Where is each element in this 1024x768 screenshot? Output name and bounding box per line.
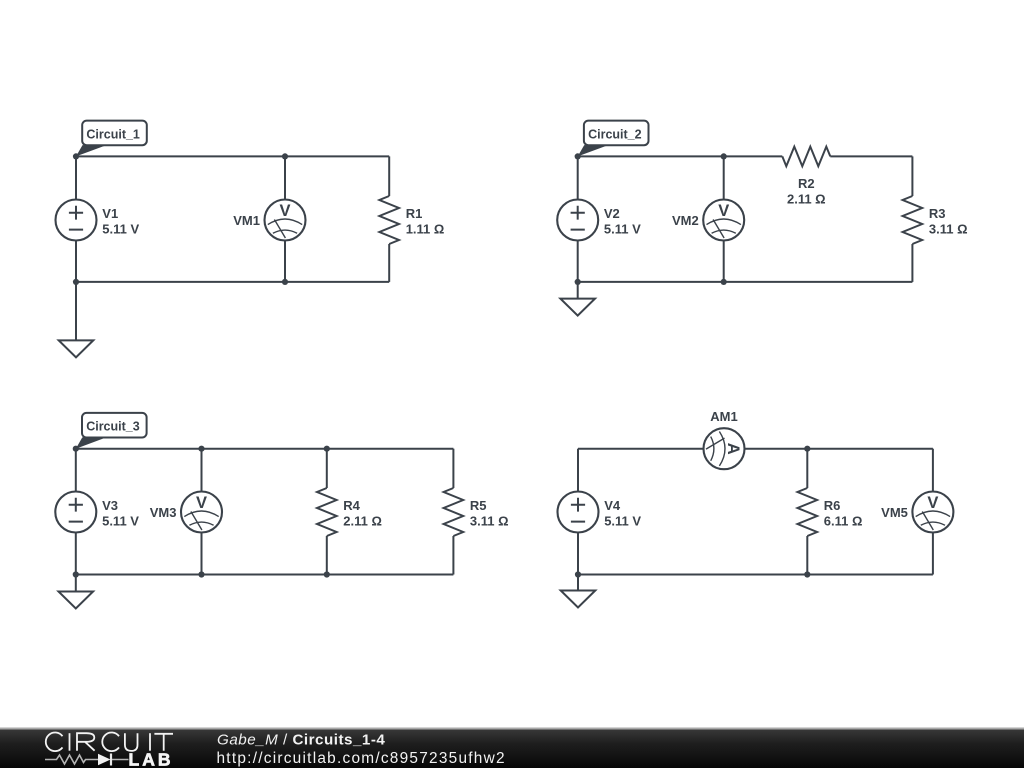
CircuitLab logo "CIRCUIT": [46, 733, 173, 752]
footer bar background: [0, 728, 1024, 768]
wire (C1 top rail): [76, 155, 389, 157]
svg-text:6.11 Ω: 6.11 Ω: [824, 514, 863, 529]
junction VM3 bottom: [198, 571, 204, 577]
svg-text:R6: R6: [824, 498, 841, 513]
wire (R5 bottom lead): [452, 536, 454, 575]
svg-text:2.11 Ω: 2.11 Ω: [343, 514, 382, 529]
wire (C2 top rail left): [578, 155, 783, 157]
wire (R3 top lead): [911, 156, 913, 196]
voltage source V1: [56, 200, 97, 241]
svg-text:R5: R5: [470, 498, 487, 513]
svg-text:LAB: LAB: [129, 750, 174, 768]
junction VM1 bottom: [282, 279, 288, 285]
voltmeter VM2: [703, 200, 744, 241]
svg-text:R3: R3: [929, 206, 946, 221]
wire (VM2 top lead): [723, 156, 725, 199]
svg-text:Circuit_2: Circuit_2: [588, 127, 642, 141]
wire (C3 top rail): [76, 448, 454, 450]
wire (R4 top lead): [326, 449, 328, 488]
junction R6 bottom: [804, 571, 810, 577]
resistor R1: [379, 196, 399, 244]
CircuitLab logo schematic doodle (resistor + diode): [45, 754, 129, 766]
wire (V2 bottom lead): [577, 240, 579, 282]
wire (VM3 bottom lead): [201, 532, 203, 574]
svg-text:R1: R1: [406, 206, 423, 221]
svg-text:VM2: VM2: [672, 213, 699, 228]
svg-text:1.11 Ω: 1.11 Ω: [406, 222, 445, 237]
voltmeter VM5: [912, 492, 953, 533]
svg-text:Gabe_M / Circuits_1-4: Gabe_M / Circuits_1-4: [217, 731, 385, 748]
wire (C3 bottom rail): [76, 574, 454, 576]
svg-text:5.11 V: 5.11 V: [604, 514, 641, 529]
wire (C2 bottom rail): [578, 281, 913, 283]
svg-text:VM5: VM5: [881, 505, 908, 520]
junction C2 bottom-left: [575, 279, 581, 285]
wire (VM5 top lead): [932, 449, 934, 492]
junction VM1 top: [282, 153, 288, 159]
junction C3 bottom-left: [73, 571, 79, 577]
net flag Circuit_3: [76, 413, 147, 449]
resistor R4: [317, 488, 337, 536]
wire (V4 bottom lead): [577, 532, 579, 574]
svg-text:V1: V1: [102, 206, 118, 221]
wire (R6 top lead): [806, 449, 808, 488]
junction VM3 top: [198, 446, 204, 452]
junction R6 top: [804, 446, 810, 452]
voltage source V3: [55, 492, 96, 533]
svg-text:V: V: [718, 202, 729, 220]
svg-text:V: V: [196, 494, 207, 512]
junction node C1 top-left: [73, 153, 79, 159]
svg-text:Circuit_1: Circuit_1: [86, 127, 140, 141]
svg-text:R4: R4: [343, 498, 360, 513]
wire (V4 top lead): [577, 449, 579, 492]
voltmeter VM3: [181, 492, 222, 533]
junction C4 bottom-left: [575, 571, 581, 577]
wire (C4 bottom rail): [578, 574, 933, 576]
svg-text:3.11 Ω: 3.11 Ω: [929, 222, 968, 237]
wire (R4 bottom lead): [326, 536, 328, 575]
svg-text:5.11 V: 5.11 V: [604, 222, 641, 237]
svg-text:V3: V3: [102, 498, 118, 513]
ground (C2): [560, 282, 595, 316]
voltage source V4: [558, 492, 599, 533]
svg-text:V2: V2: [604, 206, 620, 221]
wire (C4 top rail left): [578, 448, 703, 450]
resistor R3: [903, 196, 923, 244]
svg-text:V4: V4: [604, 498, 621, 513]
wire (VM2 bottom lead): [723, 240, 725, 282]
wire (R1 bottom lead): [388, 244, 390, 282]
junction node C3 top-left: [73, 446, 79, 452]
net flag Circuit_1: [76, 121, 147, 157]
svg-text:3.11 Ω: 3.11 Ω: [470, 514, 509, 529]
svg-text:2.11 Ω: 2.11 Ω: [787, 192, 826, 207]
wire (R3 bottom lead): [911, 244, 913, 282]
svg-text:http://circuitlab.com/c8957235: http://circuitlab.com/c8957235ufhw2: [217, 750, 506, 767]
junction node C2 top-left: [575, 153, 581, 159]
ground (C3): [59, 575, 94, 609]
svg-text:V: V: [279, 202, 290, 220]
ground (C1): [59, 282, 94, 358]
ground (C4): [561, 575, 596, 608]
voltage source V2: [557, 200, 598, 241]
junction VM2 top: [721, 153, 727, 159]
wire (C2 top rail right): [830, 155, 912, 157]
wire (V1 top lead): [75, 156, 77, 199]
svg-text:5.11 V: 5.11 V: [102, 514, 139, 529]
junction C1 bottom-left: [73, 279, 79, 285]
svg-text:Circuit_3: Circuit_3: [86, 420, 140, 434]
svg-text:R2: R2: [798, 176, 815, 191]
wire (VM1 bottom lead): [284, 240, 286, 282]
svg-text:AM1: AM1: [710, 409, 737, 424]
wire (C1 bottom rail): [76, 281, 389, 283]
svg-text:5.11 V: 5.11 V: [102, 222, 139, 237]
wire (V2 top lead): [577, 156, 579, 199]
wire (R6 bottom lead): [806, 536, 808, 575]
wire (R1 top lead): [388, 156, 390, 196]
wire (VM3 top lead): [201, 449, 203, 492]
svg-text:V: V: [927, 494, 938, 512]
junction R4 bottom: [324, 571, 330, 577]
wire (R5 top lead): [452, 449, 454, 488]
wire (V1 bottom lead): [75, 240, 77, 282]
wire (VM1 top lead): [284, 156, 286, 199]
junction VM2 bottom: [721, 279, 727, 285]
wire (VM5 bottom lead): [932, 532, 934, 574]
svg-text:VM1: VM1: [233, 213, 260, 228]
wire (V3 top lead): [75, 449, 77, 492]
resistor R6: [798, 488, 818, 536]
wire (C4 top rail right): [745, 448, 933, 450]
svg-text:A: A: [724, 443, 742, 455]
junction R4 top: [324, 446, 330, 452]
net flag Circuit_2: [578, 121, 649, 157]
svg-text:VM3: VM3: [150, 505, 177, 520]
wire (V3 bottom lead): [75, 532, 77, 574]
resistor R2: [782, 147, 830, 167]
ammeter AM1: [704, 428, 745, 469]
voltmeter VM1: [265, 200, 306, 241]
resistor R5: [444, 488, 464, 536]
